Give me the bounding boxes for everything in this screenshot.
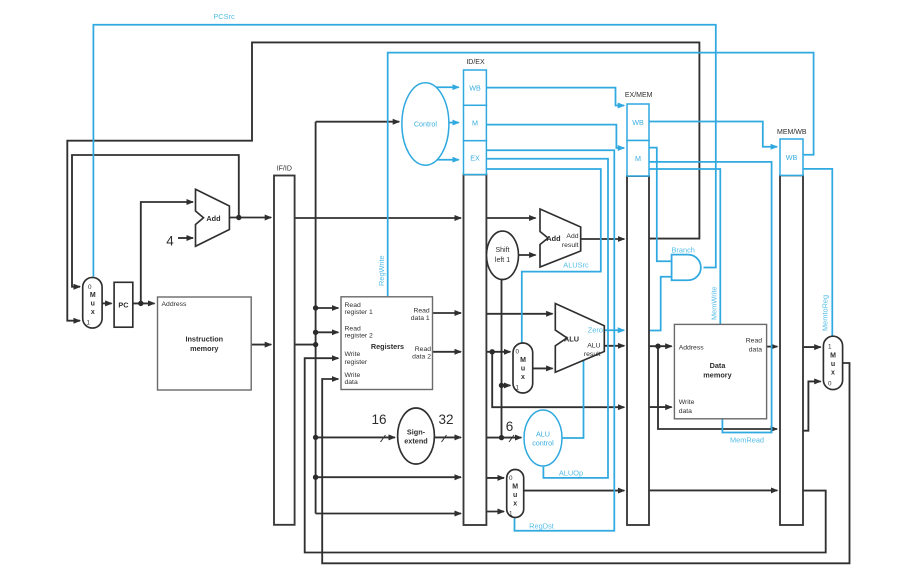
wire PC+4 IF/ID to ID/EX bbox=[295, 217, 461, 219]
svg-text:data: data bbox=[749, 347, 762, 354]
svg-text:EX: EX bbox=[470, 154, 480, 163]
svg-text:x: x bbox=[831, 370, 835, 377]
wire instruction bus vertical bbox=[295, 122, 316, 514]
svg-text:1: 1 bbox=[509, 511, 513, 518]
svg-text:PC: PC bbox=[118, 301, 129, 310]
svg-text:MemRead: MemRead bbox=[730, 436, 764, 445]
wire M bundle ID/EX to EX/MEM bbox=[486, 125, 624, 148]
svg-text:u: u bbox=[91, 301, 95, 308]
svg-text:x: x bbox=[521, 374, 525, 381]
MEM/WB WB box bbox=[780, 139, 803, 175]
pipeline register IF/ID bbox=[274, 176, 295, 525]
wire EX/MEM ALU result to data memory Address bbox=[649, 345, 672, 347]
svg-text:data: data bbox=[679, 408, 692, 415]
svg-text:data 2: data 2 bbox=[412, 353, 431, 360]
svg-text:register: register bbox=[345, 359, 368, 366]
svg-text:0: 0 bbox=[516, 349, 520, 356]
wire Zero flag to AND gate bbox=[649, 277, 671, 331]
wire ID/EX to RegDst mux input 1 bbox=[486, 511, 504, 513]
svg-text:PCSrc: PCSrc bbox=[213, 12, 235, 21]
svg-text:extend: extend bbox=[404, 437, 428, 446]
svg-text:result: result bbox=[584, 351, 601, 358]
instruction memory block bbox=[158, 297, 252, 390]
svg-text:EX/MEM: EX/MEM bbox=[625, 92, 653, 99]
wire mux M1 to PC bbox=[102, 302, 112, 304]
svg-text:Registers: Registers bbox=[371, 342, 404, 351]
svg-text:RegDst: RegDst bbox=[529, 522, 554, 531]
svg-text:WB: WB bbox=[632, 118, 644, 127]
adder Add result (branch target) bbox=[540, 209, 581, 267]
wire Shift left 1 to Add result bbox=[519, 254, 536, 256]
ID/EX EX box bbox=[464, 141, 487, 175]
svg-text:16: 16 bbox=[371, 412, 386, 427]
wire instruction to Sign-extend bbox=[316, 436, 395, 438]
svg-text:M: M bbox=[512, 484, 518, 491]
svg-text:0: 0 bbox=[88, 284, 92, 291]
svg-text:IF/ID: IF/ID bbox=[277, 166, 292, 173]
svg-text:Read: Read bbox=[345, 302, 361, 309]
wire Add result to EX/MEM bbox=[581, 238, 625, 240]
oval Control bbox=[402, 83, 449, 165]
svg-text:Write: Write bbox=[345, 372, 361, 379]
wire write-back data feedback to Write data bbox=[322, 363, 849, 563]
wire MEM/WB read data to mux input 1 bbox=[803, 346, 821, 348]
svg-text:32: 32 bbox=[438, 412, 453, 427]
wire PC to instruction memory Address bbox=[133, 302, 155, 304]
wire instruction 15-11 to ID/EX bbox=[316, 513, 461, 515]
wire ALU result to EX/MEM bbox=[604, 345, 624, 347]
pipeline register ID/EX bbox=[464, 175, 487, 526]
svg-text:register 1: register 1 bbox=[345, 309, 374, 316]
svg-text:WB: WB bbox=[786, 153, 798, 162]
svg-text:Data: Data bbox=[710, 361, 727, 370]
svg-text:0: 0 bbox=[509, 475, 513, 482]
svg-text:ALUOp: ALUOp bbox=[559, 469, 583, 478]
svg-text:data: data bbox=[345, 379, 358, 386]
data memory block bbox=[674, 324, 766, 418]
AND gate Branch bbox=[672, 255, 701, 281]
node junction dots bbox=[138, 215, 661, 480]
svg-text:ID/EX: ID/EX bbox=[466, 59, 485, 66]
svg-text:M: M bbox=[90, 292, 96, 299]
wire RegDst control bbox=[486, 150, 614, 531]
EX/MEM M box bbox=[627, 141, 649, 177]
ID/EX M box bbox=[464, 105, 487, 140]
svg-text:1: 1 bbox=[87, 320, 91, 327]
wire Sign-extend to ID/EX bbox=[434, 436, 461, 438]
svg-text:M: M bbox=[830, 353, 836, 360]
svg-text:memory: memory bbox=[703, 371, 732, 380]
svg-text:Read: Read bbox=[415, 346, 431, 353]
mux MemtoReg bbox=[823, 336, 842, 389]
mux M1 before PC bbox=[83, 277, 102, 328]
svg-text:MEM/WB: MEM/WB bbox=[777, 129, 807, 136]
svg-text:u: u bbox=[831, 361, 835, 368]
wire constant 4 to Add input bbox=[178, 237, 193, 239]
wire ALU result bypass to MEM/WB bbox=[658, 346, 777, 429]
svg-text:x: x bbox=[513, 501, 517, 508]
wire data memory Read data to MEM/WB bbox=[767, 346, 778, 348]
ALU U1 bbox=[555, 304, 604, 373]
svg-text:memory: memory bbox=[190, 344, 219, 353]
wire register number EX/MEM to MEM/WB bbox=[649, 489, 777, 491]
wire Zero flag ALU to EX/MEM bbox=[604, 329, 624, 331]
registers block bbox=[341, 297, 433, 390]
wire MemRead control bbox=[649, 162, 772, 433]
wire instruction to Read register 1 bbox=[316, 307, 339, 309]
wire ALUSrc mux to ALU bbox=[533, 367, 553, 369]
svg-text:RegWrite: RegWrite bbox=[377, 255, 386, 286]
wire MEM/WB ALU result to mux input 0 bbox=[803, 381, 821, 430]
svg-text:Add: Add bbox=[566, 233, 578, 240]
svg-text:register 2: register 2 bbox=[345, 333, 374, 340]
svg-text:6: 6 bbox=[506, 419, 514, 434]
wire immediate to ALUSrc mux input 1 bbox=[502, 384, 511, 386]
wire EX/MEM to data memory Write data bbox=[649, 406, 672, 408]
svg-text:4: 4 bbox=[166, 234, 174, 249]
svg-text:MemtoReg: MemtoReg bbox=[821, 295, 830, 331]
wire ID/EX immediate to ALU control bbox=[486, 437, 521, 439]
svg-text:Shift: Shift bbox=[495, 247, 509, 254]
wire Add output to IF/ID bbox=[229, 217, 271, 219]
wire WB bundle ID/EX to EX/MEM bbox=[486, 88, 624, 106]
wire instruction to Control bbox=[316, 121, 400, 123]
svg-text:u: u bbox=[521, 366, 525, 373]
svg-text:WB: WB bbox=[469, 84, 481, 93]
wire ID/EX PC+4 to Add result bbox=[486, 217, 535, 219]
svg-text:ALUSrc: ALUSrc bbox=[563, 261, 589, 270]
wire Read data 1 to ID/EX bbox=[433, 312, 462, 314]
svg-text:u: u bbox=[513, 492, 517, 499]
svg-text:0: 0 bbox=[828, 381, 832, 388]
wire PC+4 feedback to mux input 0 bbox=[72, 155, 239, 287]
svg-text:Read: Read bbox=[345, 326, 361, 333]
register PC bbox=[114, 282, 133, 327]
wire instruction 20-16 to ID/EX bbox=[316, 476, 461, 478]
adder Add (PC+4) bbox=[196, 189, 230, 246]
svg-text:1: 1 bbox=[516, 385, 520, 392]
wire RegWrite control bbox=[388, 53, 814, 297]
svg-text:Add: Add bbox=[546, 234, 560, 243]
svg-text:ALU: ALU bbox=[587, 342, 600, 349]
svg-text:M: M bbox=[635, 154, 641, 163]
svg-text:Write: Write bbox=[679, 399, 695, 406]
svg-text:data 1: data 1 bbox=[411, 315, 430, 322]
wire PC up to Add input bbox=[141, 202, 193, 303]
wire Control to ID/EX WB bbox=[437, 86, 459, 88]
svg-text:left 1: left 1 bbox=[495, 257, 510, 264]
svg-text:Read: Read bbox=[413, 308, 429, 315]
mux RegDst bbox=[507, 470, 524, 518]
bus width slash marks bbox=[381, 435, 515, 442]
wire Read data 2 to EX/MEM write data bbox=[492, 352, 624, 407]
wire Branch control to AND gate bbox=[649, 148, 671, 262]
ID/EX WB box bbox=[464, 70, 487, 105]
wire PCSrc from AND gate to mux select bbox=[93, 25, 715, 277]
svg-text:Instruction: Instruction bbox=[185, 335, 223, 344]
oval Shift left 1 bbox=[487, 231, 519, 279]
svg-text:1: 1 bbox=[828, 344, 832, 351]
svg-text:Sign-: Sign- bbox=[407, 428, 426, 437]
wire MemWrite control bbox=[649, 169, 720, 325]
wire instruction memory to IF/ID bbox=[251, 344, 271, 346]
wire Control to ID/EX M bbox=[449, 122, 459, 124]
svg-text:result: result bbox=[562, 242, 579, 249]
wire ID/EX Read data 1 to ALU bbox=[486, 313, 552, 315]
svg-text:Read: Read bbox=[746, 338, 762, 345]
wire ALU control to ALU bbox=[562, 361, 584, 439]
wire RegDst mux to EX/MEM bbox=[524, 490, 625, 492]
wire instruction to Read register 2 bbox=[316, 331, 339, 333]
svg-text:control: control bbox=[532, 439, 554, 448]
wire Read data 2 to ID/EX bbox=[433, 351, 462, 353]
svg-text:Write: Write bbox=[345, 351, 361, 358]
svg-text:x: x bbox=[91, 309, 95, 316]
oval Sign-extend bbox=[398, 408, 435, 464]
svg-text:Branch: Branch bbox=[672, 246, 695, 255]
wire branch target feedback to mux input 1 bbox=[67, 42, 699, 320]
svg-text:Control: Control bbox=[414, 120, 438, 129]
svg-text:ALU: ALU bbox=[564, 335, 579, 344]
wire WB bundle EX/MEM to MEM/WB bbox=[649, 122, 777, 147]
wire immediate vertical to Shift left 1 bbox=[501, 280, 503, 438]
wire ID/EX to RegDst mux input 0 bbox=[486, 477, 504, 479]
wire ID/EX Read data 2 to ALUSrc mux input 0 bbox=[486, 351, 510, 353]
svg-text:Address: Address bbox=[162, 301, 188, 308]
svg-text:ALU: ALU bbox=[536, 430, 550, 439]
svg-text:M: M bbox=[520, 357, 526, 364]
EX/MEM WB box bbox=[627, 104, 649, 141]
mux ALUSrc bbox=[513, 343, 533, 393]
svg-text:MemWrite: MemWrite bbox=[710, 286, 719, 320]
wire write register number feedback bbox=[305, 358, 826, 552]
wire Control to ID/EX EX bbox=[437, 159, 459, 161]
wire ALUSrc control bbox=[486, 169, 600, 344]
wire MemtoReg control bbox=[803, 169, 832, 336]
svg-text:Zero: Zero bbox=[588, 326, 603, 335]
pipeline register EX/MEM bbox=[627, 176, 649, 525]
oval ALU control bbox=[524, 410, 562, 466]
svg-text:Address: Address bbox=[679, 345, 705, 352]
wire ALUOp control bbox=[486, 159, 608, 478]
svg-text:Add: Add bbox=[206, 214, 220, 223]
pipeline register MEM/WB bbox=[780, 175, 803, 525]
svg-text:M: M bbox=[472, 119, 478, 128]
